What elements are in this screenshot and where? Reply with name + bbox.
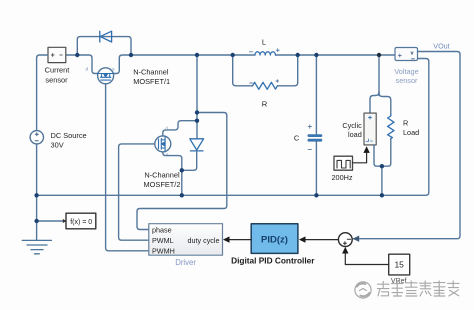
voltage sensor block [395,48,418,61]
svg-text:Digital PID Controller: Digital PID Controller [231,256,315,266]
wire split to R load [379,93,391,115]
resistor R zigzag [253,82,278,89]
diode D1 [100,31,112,42]
svg-text:DC Source: DC Source [51,131,87,140]
wire diode2 bottom to lower node [182,151,197,170]
svg-text:200Hz: 200Hz [331,173,352,182]
svg-text:load: load [348,130,362,139]
arrowhead into PID [299,236,306,242]
svg-text:VOut: VOut [433,41,449,50]
arrowhead into sum bottom [342,247,348,254]
wire voltage sensor minus leg [382,59,429,196]
wire top rail L to voltage sensor [298,54,395,56]
ground symbol [22,240,51,253]
svg-text:sensor: sensor [45,76,68,85]
sum block [338,233,352,247]
current sensor block [48,47,66,62]
wire inductor stubs [233,54,298,56]
cyclic load block [364,113,376,145]
wire phase node vertical [196,55,198,139]
svg-text:f(x) = 0: f(x) = 0 [70,219,92,226]
wire VRef to sum [345,253,388,265]
watermark logo [355,282,371,298]
arrowhead into cyclic load [363,146,369,153]
wire top rail from current sensor to diode junction [66,54,77,56]
svg-text:duty cycle: duty cycle [188,236,220,245]
svg-text:30V: 30V [51,140,64,149]
svg-text:R: R [262,100,268,109]
wire mosfet1 source stub [114,55,131,74]
wire cyclic load bottom [374,145,382,166]
VRef constant block 15 [389,254,410,275]
wire capacitor branch lower [315,142,317,196]
wire diode loop [77,37,131,55]
PID block [251,224,298,254]
solver block f(x)=0 [66,213,96,229]
wire PID output to driver [229,239,251,241]
wire mosfet1 gate down to PWMH [106,84,149,251]
arrowhead feedback into sum [353,236,360,242]
wire current sensor to DC source [37,55,48,131]
wire phase route to driver [137,113,227,230]
diode D2 freewheeling [190,139,204,151]
svg-text:C: C [294,133,300,142]
capacitor C plates [308,134,323,141]
svg-text:Load: Load [403,128,419,137]
svg-text:PWML: PWML [152,236,174,245]
wire to solver block [37,220,66,222]
transistor N-Channel MOSFET/2 [155,126,171,157]
wire split to cyclic load [370,92,379,113]
svg-text:Current: Current [45,66,70,75]
resistor R Load zigzag [388,115,394,140]
svg-text:MOSFET/2: MOSFET/2 [144,180,181,189]
capacitor polarity marks [308,125,311,150]
resistor R loop wire [233,55,298,86]
ground rail [37,194,382,196]
svg-text:Driver: Driver [175,258,196,267]
svg-text:PWMH: PWMH [152,246,175,255]
svg-text:phase: phase [152,226,172,235]
wire DC source to ground [36,144,38,240]
transistor N-Channel MOSFET/1 [86,67,116,84]
driver block [149,224,223,256]
wire R load bottom [382,140,391,167]
svg-text:N-Channel: N-Channel [133,67,169,76]
svg-text:N-Channel: N-Channel [144,171,180,180]
wire load branch from top rail [378,55,380,96]
wire sum output to PID [305,239,338,241]
resistor R polarity marks [250,80,279,83]
wire lower node down to ground rail [181,170,183,195]
wire 200Hz to cyclic load [353,153,367,163]
wire mosfet2 gate to PWML [119,144,155,240]
DC source [30,131,43,144]
arrowhead into driver duty cycle [223,236,230,242]
svg-text:Voltage: Voltage [394,67,418,76]
svg-text:MOSFET/1: MOSFET/1 [133,77,170,86]
svg-text:PID(z): PID(z) [261,235,288,246]
wire top rail diode junction to L [131,54,233,56]
svg-text:15: 15 [394,260,404,270]
wire mosfet1 drain stub [77,55,97,74]
wire mosfet2 drain staircase [163,121,197,136]
pulse source block 200Hz [334,156,353,170]
solver port nub [63,219,67,223]
wire capacitor branch upper [315,55,317,134]
watermark text [378,281,460,296]
wire mosfet2 source to lower node [163,152,182,170]
svg-text:sensor: sensor [396,76,418,85]
wire VOut signal to feedback [354,52,461,239]
inductor polarity marks [250,49,280,52]
wire load bottom node to rail [381,166,383,195]
svg-text:L: L [262,38,266,47]
inductor L [255,52,276,55]
svg-text:R: R [403,119,408,128]
